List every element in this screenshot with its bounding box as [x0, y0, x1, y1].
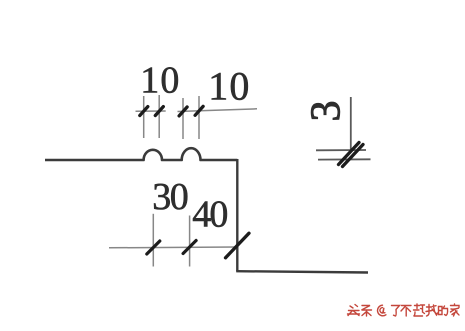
extension line b2	[189, 216, 191, 267]
dimension 3 extension line upper	[316, 149, 366, 151]
char 了	[392, 306, 400, 317]
tick t1	[140, 107, 148, 116]
extension line a4	[198, 96, 200, 139]
dimension line 30 40	[109, 246, 237, 249]
tick t8 thick slash	[339, 143, 360, 165]
profile right vertical line	[236, 159, 238, 271]
svg-text:10: 10	[140, 59, 179, 101]
char 起	[414, 304, 425, 316]
char 我	[426, 305, 438, 317]
dimension line 10 right segment	[178, 109, 258, 112]
char 的	[439, 306, 448, 316]
char 头	[348, 305, 360, 316]
tick t7 big corner slash	[226, 233, 250, 258]
tick t5	[147, 241, 160, 254]
tick t6	[183, 241, 196, 254]
watermark toutiao red text	[348, 304, 460, 316]
char 家	[451, 304, 460, 316]
svg-text:40: 40	[192, 193, 228, 235]
dimension line 10 left segment	[136, 110, 166, 112]
extension line a3	[182, 98, 184, 139]
profile bottom line	[236, 271, 368, 272]
char @	[378, 305, 386, 316]
tick t3	[179, 107, 187, 116]
svg-text:3: 3	[304, 101, 350, 122]
tick t2	[155, 107, 163, 116]
dimension 3 extension line lower	[318, 158, 371, 160]
profile outline top line with two bumps	[45, 148, 237, 160]
extension line b1	[152, 214, 154, 267]
svg-text:10: 10	[208, 64, 249, 109]
tick t9 thick slash twin	[343, 145, 364, 167]
dimension 3 vertical line	[350, 97, 352, 151]
extension line a2	[158, 95, 160, 138]
char 不	[401, 306, 411, 317]
svg-text:30: 30	[152, 176, 189, 218]
char 条	[362, 306, 372, 317]
extension line a1	[143, 96, 145, 138]
tick t4	[195, 106, 203, 115]
